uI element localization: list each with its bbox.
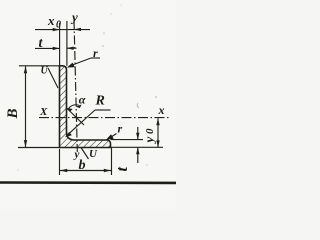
b dimension line with arrows [60,170,111,172]
y0 dimension line with arrows [157,118,159,147]
svg-text:y: y [73,149,80,161]
u axis top segment [48,68,58,88]
svg-text:y: y [142,137,157,145]
svg-text:t: t [114,167,131,172]
extension of top face right [111,139,144,141]
svg-text:0: 0 [56,20,61,31]
svg-text:U: U [41,66,49,77]
svg-text:B: B [5,108,21,119]
extension line left face up [59,23,61,66]
B dimension: bottom extension line [18,147,60,149]
x axis (centroid horizontal axis) [39,117,170,119]
b dimension: right extension line [111,148,113,175]
y axis (centroid vertical axis, slight tilt) [74,20,77,152]
svg-text:b: b [79,158,86,173]
svg-text:0: 0 [144,128,156,134]
angle section L-profile outline with hatching [60,66,111,148]
svg-text:U: U [89,148,98,160]
faint scan artifacts [137,103,139,108]
t dimension right: lower arrow [137,147,139,163]
extension of bottom face right [111,146,164,148]
t dimension right: upper arrow [137,127,139,140]
svg-text:r: r [118,122,123,136]
svg-text:R: R [95,94,105,109]
b dimension: left extension line [59,149,61,175]
B dimension: top extension line [19,65,60,67]
svg-text:x: x [47,13,55,28]
svg-text:y: y [70,10,78,25]
extension line inner face up [66,21,68,66]
alpha angle arc with arrow at y axis [69,105,79,109]
svg-text:X: X [39,106,48,118]
x0 dimension line and arrows [35,29,90,31]
bottom rule [0,181,176,184]
45-degree u line through centroid with arrow [68,109,85,125]
svg-text:α: α [79,93,86,107]
t dimension lines and arrows [35,47,60,49]
svg-text:x: x [158,103,165,117]
u axis bottom segment [81,148,89,160]
B dimension line with arrows [25,66,27,147]
